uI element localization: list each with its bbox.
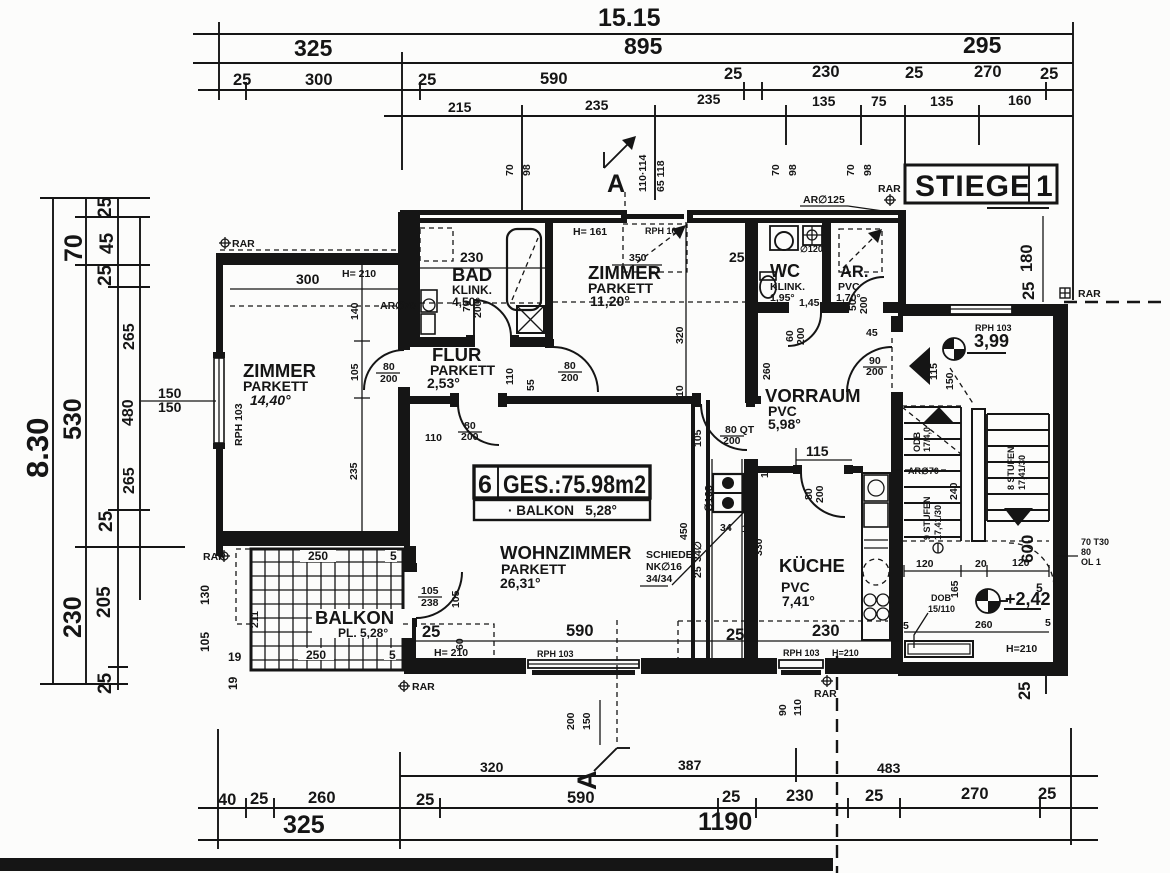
svg-text:AR∅125: AR∅125 xyxy=(803,194,845,206)
schiedel chimney block xyxy=(713,474,743,512)
svg-text:215: 215 xyxy=(448,99,472,115)
window in top wall xyxy=(627,214,684,219)
wc/ar divider xyxy=(822,222,831,302)
svg-text:RAR: RAR xyxy=(232,238,255,250)
svg-text:300: 300 xyxy=(305,71,333,89)
svg-text:RPH 103: RPH 103 xyxy=(783,648,820,658)
svg-text:1190: 1190 xyxy=(698,808,752,836)
3.99 marker xyxy=(943,338,965,360)
svg-text:1,45: 1,45 xyxy=(799,297,820,309)
bad small wc fixtures left xyxy=(421,290,437,312)
svg-text:11,20°: 11,20° xyxy=(590,293,630,309)
svg-text:230: 230 xyxy=(786,787,814,805)
svg-text:75: 75 xyxy=(871,93,887,109)
corridor/wohnzimmer wall xyxy=(404,396,458,404)
svg-text:2,53°: 2,53° xyxy=(427,375,460,391)
svg-text:34: 34 xyxy=(720,522,732,534)
svg-text:AR∅70: AR∅70 xyxy=(908,466,939,476)
kueche counter xyxy=(862,473,890,640)
svg-text:110: 110 xyxy=(504,368,516,385)
svg-text:895: 895 xyxy=(624,33,663,59)
svg-text:200: 200 xyxy=(380,373,398,385)
svg-text:450: 450 xyxy=(678,522,690,540)
svg-text:200: 200 xyxy=(866,366,884,378)
svg-text:25: 25 xyxy=(416,791,434,809)
svg-text:120: 120 xyxy=(916,558,934,570)
svg-text:H=210: H=210 xyxy=(1006,643,1037,655)
svg-text:10: 10 xyxy=(674,385,686,397)
svg-text:590: 590 xyxy=(566,622,594,640)
door vorraum-wohnz xyxy=(701,404,747,450)
center divider xyxy=(972,409,985,541)
svg-text:1: 1 xyxy=(1036,170,1053,203)
svg-text:15.15: 15.15 xyxy=(598,4,661,32)
svg-text:150: 150 xyxy=(581,712,593,730)
svg-text:260: 260 xyxy=(975,619,993,631)
svg-text:110: 110 xyxy=(425,432,442,444)
svg-text:115: 115 xyxy=(806,443,829,459)
svg-text:PL. 5,28°: PL. 5,28° xyxy=(338,626,388,640)
svg-text:25: 25 xyxy=(95,264,116,286)
svg-text:70: 70 xyxy=(504,164,516,176)
svg-text:8 STUFEN: 8 STUFEN xyxy=(1006,446,1016,490)
ticks xyxy=(40,198,185,684)
rotated window dims 70/98 pairs xyxy=(504,164,874,176)
main bottom wall xyxy=(404,658,526,674)
svg-text:350: 350 xyxy=(629,252,647,264)
door zimmer2 xyxy=(553,347,598,392)
svg-text:25: 25 xyxy=(422,623,440,641)
wohnzimmer east wall double xyxy=(691,400,695,660)
svg-text:200: 200 xyxy=(814,485,826,503)
svg-text:300: 300 xyxy=(296,271,320,287)
svg-text:235: 235 xyxy=(697,91,721,107)
svg-text:260: 260 xyxy=(761,362,773,380)
svg-text:5: 5 xyxy=(389,648,396,662)
main top wall xyxy=(400,210,624,215)
svg-text:WOHNZIMMER: WOHNZIMMER xyxy=(500,542,632,563)
bad south wall xyxy=(410,337,474,347)
svg-text:BAD: BAD xyxy=(452,264,492,285)
svg-text:130: 130 xyxy=(198,585,212,605)
zimmer1 west wall xyxy=(216,253,223,357)
svg-text:483: 483 xyxy=(877,760,901,776)
zimmer1 west wall stub xyxy=(216,546,223,556)
svg-text:25: 25 xyxy=(729,249,745,265)
svg-text:105: 105 xyxy=(349,363,361,381)
svg-text:1: 1 xyxy=(742,523,748,535)
section arrow A top xyxy=(604,136,667,212)
wc/ar south wall xyxy=(758,302,788,313)
svg-text:GES.:75.98m2: GES.:75.98m2 xyxy=(503,471,646,499)
door kueche xyxy=(801,473,845,517)
svg-text:25: 25 xyxy=(96,510,117,532)
svg-text:238: 238 xyxy=(421,597,439,609)
svg-text:205: 205 xyxy=(94,586,115,618)
wc toilet xyxy=(760,276,776,298)
dim line 25/300/25/590/25/230/25/270/25 xyxy=(198,89,1073,91)
svg-text:295: 295 xyxy=(963,32,1002,58)
dashed strip left of balcony xyxy=(236,549,251,624)
dim line 325/895/295 xyxy=(193,62,1073,64)
svg-text:80: 80 xyxy=(564,360,576,372)
svg-text:115: 115 xyxy=(928,363,940,380)
svg-text:∅10: ∅10 xyxy=(703,491,715,512)
svg-text:25: 25 xyxy=(692,566,704,578)
svg-text:98: 98 xyxy=(862,164,874,176)
svg-text:H= 210: H= 210 xyxy=(342,268,376,280)
svg-text:590: 590 xyxy=(540,70,568,88)
svg-text:200: 200 xyxy=(461,431,479,443)
2.42 marker xyxy=(976,589,1000,613)
door bad xyxy=(474,300,511,337)
kueche west wall xyxy=(744,459,758,664)
svg-text:DOB: DOB xyxy=(931,593,952,603)
door zimmer1 xyxy=(364,350,404,390)
AR o70 dashes in stair xyxy=(896,469,950,471)
svg-text:KÜCHE: KÜCHE xyxy=(779,555,845,576)
svg-text:17/4,0: 17/4,0 xyxy=(922,427,932,452)
svg-text:105: 105 xyxy=(421,585,439,597)
svg-text:H= 161: H= 161 xyxy=(573,226,607,238)
entry door xyxy=(847,347,892,392)
svg-text:140: 140 xyxy=(349,302,361,320)
svg-text:65 118: 65 118 xyxy=(655,160,667,192)
svg-text:25: 25 xyxy=(233,71,251,89)
door flur-wohnz xyxy=(458,404,499,445)
svg-text:160: 160 xyxy=(1008,92,1032,108)
svg-text:5: 5 xyxy=(903,620,909,632)
svg-text:55: 55 xyxy=(525,379,537,391)
svg-text:270: 270 xyxy=(961,785,989,803)
direction arrows xyxy=(923,407,954,423)
svg-text:200: 200 xyxy=(858,296,870,314)
schiedel shaft xyxy=(711,459,713,658)
svg-text:98: 98 xyxy=(521,164,533,176)
svg-text:NK∅16: NK∅16 xyxy=(646,561,682,573)
svg-text:98: 98 xyxy=(787,164,799,176)
svg-text:SCHIEDEl: SCHIEDEl xyxy=(646,549,696,561)
svg-text:3,99: 3,99 xyxy=(974,331,1009,351)
svg-text:40: 40 xyxy=(218,791,236,809)
svg-text:25: 25 xyxy=(250,790,268,808)
svg-text:230: 230 xyxy=(59,596,87,638)
svg-text:230: 230 xyxy=(812,63,840,81)
wc washbasin xyxy=(770,226,798,250)
svg-text:135: 135 xyxy=(930,93,954,109)
svg-text:70: 70 xyxy=(60,234,88,262)
svg-text:235: 235 xyxy=(585,97,609,113)
stair south wall xyxy=(898,662,1068,676)
svg-text:325: 325 xyxy=(294,35,333,61)
svg-text:5: 5 xyxy=(390,549,397,563)
svg-text:14,40°: 14,40° xyxy=(250,392,291,408)
svg-text:90: 90 xyxy=(777,704,789,716)
ar dashed box with diagonal xyxy=(839,229,882,272)
svg-text:· BALKON 5,28°: · BALKON 5,28° xyxy=(508,503,617,518)
svg-text:230: 230 xyxy=(460,249,484,265)
door wc xyxy=(788,313,821,346)
svg-text:25: 25 xyxy=(95,196,116,218)
svg-text:19: 19 xyxy=(228,650,242,664)
svg-text:230: 230 xyxy=(812,622,840,640)
vorraum east / entry wall xyxy=(891,316,903,332)
svg-text:5,98°: 5,98° xyxy=(768,416,801,432)
bad bathtub xyxy=(507,229,541,310)
stair radiator xyxy=(905,641,973,657)
svg-text:110·114: 110·114 xyxy=(637,154,649,192)
svg-text:8.30: 8.30 xyxy=(20,418,55,478)
svg-text:RPH 103: RPH 103 xyxy=(537,649,574,659)
svg-text:250: 250 xyxy=(306,648,326,662)
svg-text:120: 120 xyxy=(1012,557,1030,569)
ticks top chains xyxy=(219,22,1073,300)
svg-text:A: A xyxy=(607,170,625,198)
svg-text:5: 5 xyxy=(1045,617,1051,629)
svg-text:70: 70 xyxy=(845,164,857,176)
svg-text:80: 80 xyxy=(1081,547,1091,557)
svg-text:17,41/30: 17,41/30 xyxy=(933,505,943,540)
STIEGE 1 box xyxy=(878,165,1057,208)
svg-text:530: 530 xyxy=(59,398,87,440)
svg-text:70: 70 xyxy=(770,164,782,176)
svg-text:BALKON: BALKON xyxy=(315,607,394,628)
svg-text:325: 325 xyxy=(283,811,325,839)
svg-text:RAR: RAR xyxy=(878,183,901,195)
svg-text:17,41/30: 17,41/30 xyxy=(1017,455,1027,490)
east wall xyxy=(1053,304,1068,676)
zimmer1 east wall xyxy=(398,253,410,350)
wc west wall xyxy=(745,222,758,403)
svg-text:45: 45 xyxy=(97,232,118,254)
east wall of WC/AR section xyxy=(898,210,906,316)
svg-text:25: 25 xyxy=(865,787,883,805)
svg-text:387: 387 xyxy=(678,757,702,773)
svg-text:15/110: 15/110 xyxy=(928,604,955,614)
balcony door xyxy=(416,572,462,618)
svg-text:25: 25 xyxy=(724,65,742,83)
svg-text:480: 480 xyxy=(120,399,137,426)
svg-text:265: 265 xyxy=(121,323,138,350)
svg-text:80: 80 xyxy=(383,361,395,373)
bad boiler X xyxy=(517,306,544,333)
svg-text:A: A xyxy=(572,771,602,791)
svg-text:200: 200 xyxy=(795,327,807,345)
door jamb blocks xyxy=(398,302,892,627)
svg-text:7,41°: 7,41° xyxy=(782,593,815,609)
svg-text:180: 180 xyxy=(1018,244,1036,272)
wohnzimmer west wall xyxy=(404,546,416,571)
svg-text:WC: WC xyxy=(770,261,800,281)
svg-text:265: 265 xyxy=(121,467,138,494)
svg-text:RAR: RAR xyxy=(1078,288,1101,300)
zimmer1 window xyxy=(213,352,225,358)
svg-text:211: 211 xyxy=(249,611,261,628)
svg-text:RAR: RAR xyxy=(814,688,837,700)
svg-text:200: 200 xyxy=(565,712,577,730)
svg-text:105: 105 xyxy=(198,632,212,652)
svg-text:34/34: 34/34 xyxy=(646,573,672,585)
svg-text:250: 250 xyxy=(308,549,328,563)
kueche north wall xyxy=(758,466,801,473)
svg-text:25: 25 xyxy=(1020,282,1038,300)
svg-text:STIEGE: STIEGE xyxy=(915,170,1031,203)
zimmer1 bottom wall xyxy=(216,531,410,546)
door at stair bottom dashed xyxy=(1009,543,1054,588)
svg-text:∅120: ∅120 xyxy=(800,244,823,254)
svg-text:590: 590 xyxy=(567,789,595,807)
svg-text:150: 150 xyxy=(944,372,956,390)
svg-text:25: 25 xyxy=(722,788,740,806)
svg-text:240: 240 xyxy=(948,482,960,500)
svg-text:45: 45 xyxy=(866,327,878,339)
svg-text:320: 320 xyxy=(674,326,686,344)
svg-text:20: 20 xyxy=(975,558,987,570)
svg-text:ODB: ODB xyxy=(912,432,922,453)
svg-text:235: 235 xyxy=(348,462,360,480)
svg-text:270: 270 xyxy=(974,63,1002,81)
long dashed section line right xyxy=(836,656,838,873)
dim line 15.15 xyxy=(193,33,1073,35)
bottom windows xyxy=(528,660,639,668)
dashed guide xyxy=(902,407,961,454)
svg-text:110: 110 xyxy=(792,699,804,716)
svg-text:19: 19 xyxy=(226,676,240,690)
svg-text:RPH 103: RPH 103 xyxy=(233,403,245,446)
svg-text:RAR: RAR xyxy=(412,681,435,693)
bad washing machine dashed xyxy=(420,228,453,261)
bad west wall xyxy=(410,215,420,347)
stair north wall xyxy=(898,304,1068,316)
svg-text:10: 10 xyxy=(759,466,771,478)
zimmer1 top wall xyxy=(216,253,410,265)
svg-text:25: 25 xyxy=(1040,65,1058,83)
svg-text:+2,42: +2,42 xyxy=(1005,589,1051,609)
svg-text:200: 200 xyxy=(723,435,741,447)
bad east wall xyxy=(545,222,553,347)
svg-text:25: 25 xyxy=(905,64,923,82)
svg-text:260: 260 xyxy=(308,789,336,807)
svg-text:105: 105 xyxy=(450,590,462,608)
svg-text:6: 6 xyxy=(478,471,492,499)
svg-text:60: 60 xyxy=(454,638,466,650)
svg-text:105: 105 xyxy=(692,429,704,447)
svg-text:135: 135 xyxy=(812,93,836,109)
door ar xyxy=(848,277,884,313)
svg-text:OL 1: OL 1 xyxy=(1081,557,1101,567)
svg-text:70 T30: 70 T30 xyxy=(1081,537,1109,547)
svg-text:200: 200 xyxy=(561,372,579,384)
svg-text:9 STUFEN: 9 STUFEN xyxy=(922,496,932,540)
svg-text:320: 320 xyxy=(480,759,504,775)
svg-text:330: 330 xyxy=(753,538,765,556)
svg-text:H=210: H=210 xyxy=(832,648,859,658)
svg-text:25: 25 xyxy=(1016,682,1034,700)
dim line 215/235/235/135/75/135/160 xyxy=(384,115,1073,117)
wc grid square xyxy=(803,226,822,245)
svg-text:26,31°: 26,31° xyxy=(500,575,541,591)
svg-text:RPH 103: RPH 103 xyxy=(975,323,1012,333)
svg-text:5: 5 xyxy=(1036,581,1043,595)
